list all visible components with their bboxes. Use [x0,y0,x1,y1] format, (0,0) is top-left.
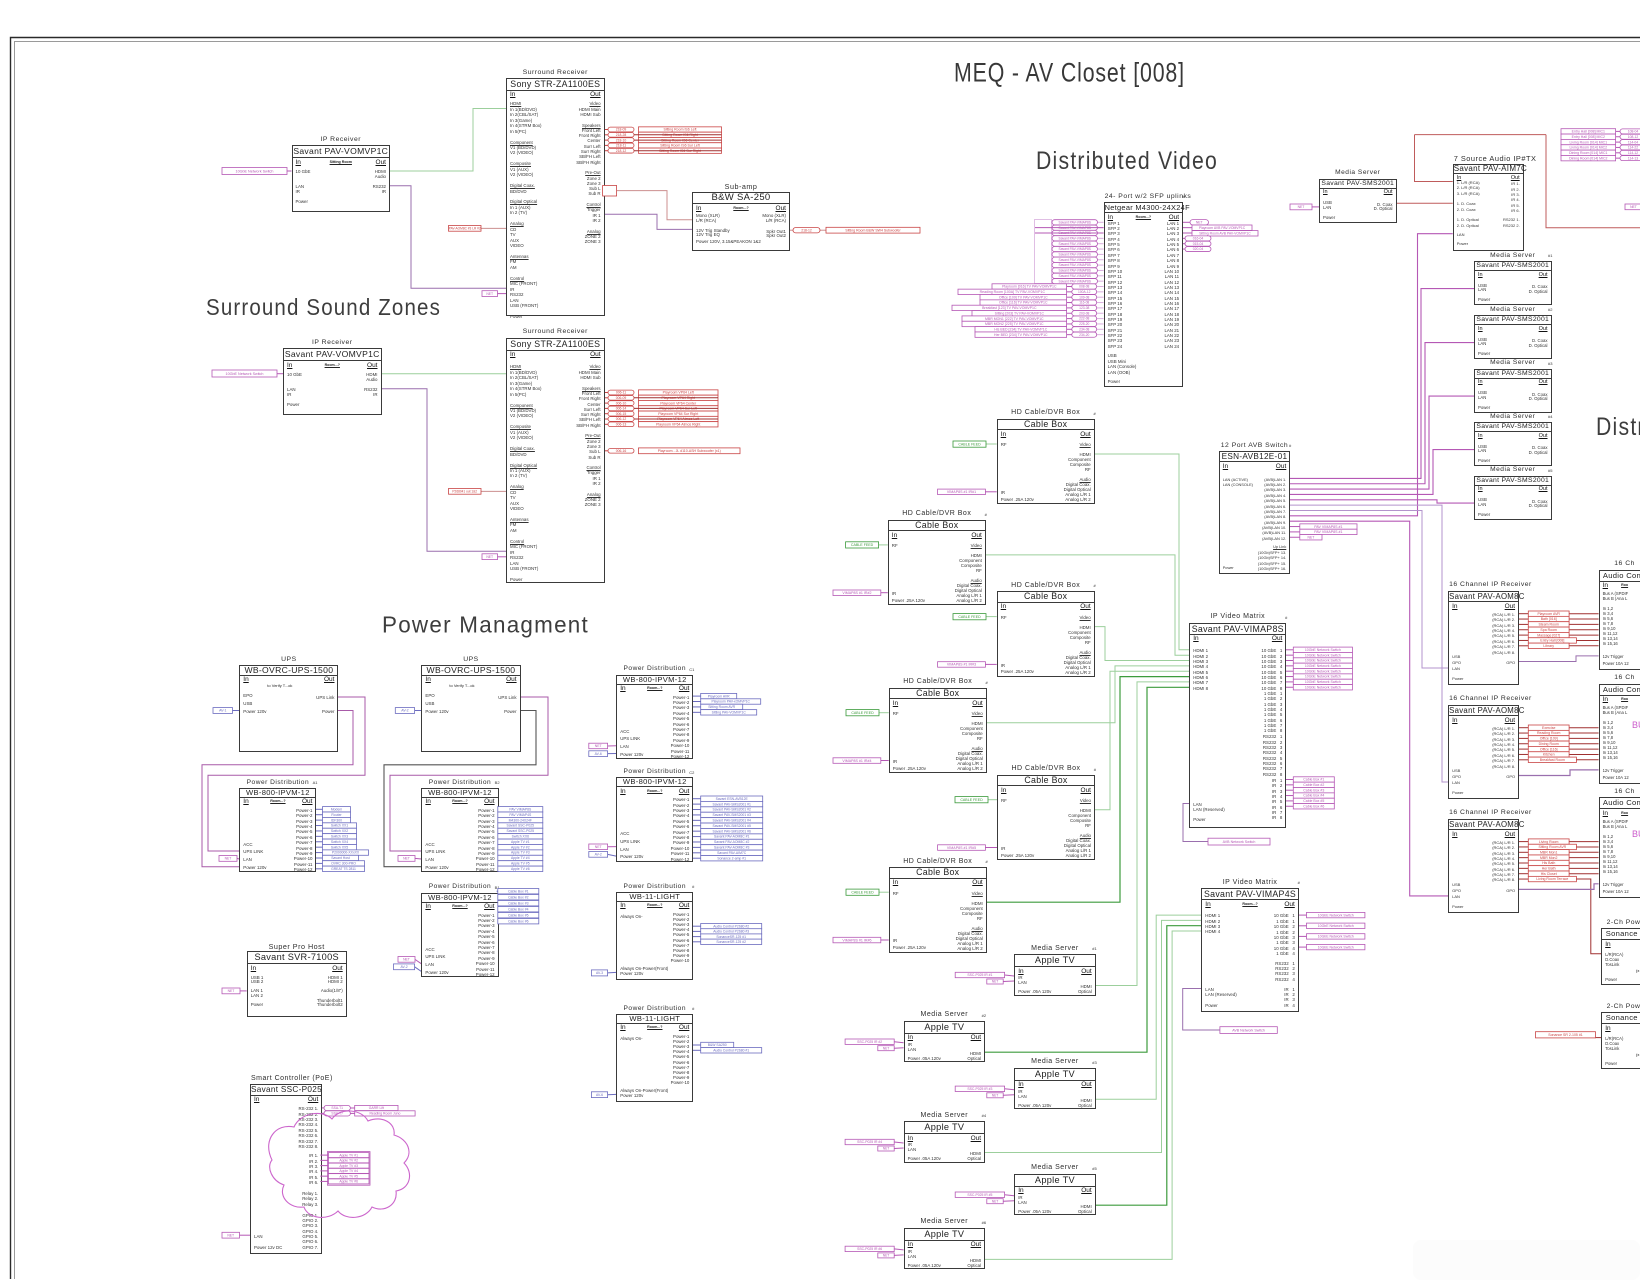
svg-text:Playroom AVR: Playroom AVR [1537,612,1560,616]
svg-text:114-04: 114-04 [1628,140,1638,144]
svg-text:Savant PAV-VIMAP8S: Savant PAV-VIMAP8S [1059,220,1092,224]
svg-text:AV-2: AV-2 [401,709,408,713]
svg-text:Audio Control P2680 #3: Audio Control P2680 #3 [713,930,749,934]
svg-text:NET: NET [486,555,493,559]
svg-text:Savant PAV-SMS2001 #2: Savant PAV-SMS2001 #2 [713,808,751,812]
svg-text:114-22: 114-22 [1628,146,1638,150]
svg-text:AV-2: AV-2 [595,853,602,857]
svg-text:P2000000-XXxXX: P2000000-XXxXX [332,851,360,855]
svg-text:AV-3: AV-3 [596,971,603,975]
svg-text:Exercise: Exercise [1542,726,1555,730]
svg-text:218-11: 218-11 [616,144,626,148]
svg-text:VIMAP8S #1 IR#4: VIMAP8S #1 IR#4 [842,759,871,763]
svg-text:Apple TV #4: Apple TV #4 [339,1169,358,1173]
svg-text:Dining Room [014] MIC1: Dining Room [014] MIC1 [1569,151,1607,155]
svg-text:Dining Room: Dining Room [1539,742,1559,746]
svg-text:Savant PAV-VIMAP8S: Savant PAV-VIMAP8S [1059,258,1092,262]
svg-text:Office [116]: Office [116] [1540,747,1558,751]
svg-text:Dining Room [014] MIC2: Dining Room [014] MIC2 [1569,156,1607,160]
svg-text:10GbE Network Switch: 10GbE Network Switch [1305,675,1341,679]
svg-text:114-12: 114-12 [1628,151,1638,155]
svg-text:Savant PAV-VIMAP8S: Savant PAV-VIMAP8S [1059,279,1092,283]
svg-text:SSC-P025 IR #2: SSC-P025 IR #2 [857,1040,882,1044]
svg-text:NET: NET [1196,220,1203,224]
svg-text:Savant PAV-SMS2001 #3: Savant PAV-SMS2001 #3 [713,813,751,817]
svg-text:Reading Room [100A] TV PAV-VOM: Reading Room [100A] TV PAV-VOMVP1C [980,290,1046,294]
svg-text:Savant PAV-AIM7C: Savant PAV-AIM7C [717,851,747,855]
svg-text:His Bath: His Bath [1542,861,1555,865]
svg-text:CABLE FEED: CABLE FEED [958,615,981,619]
svg-text:Apple TV #5: Apple TV #5 [511,862,530,866]
svg-text:OVRC 300-PRO: OVRC 300-PRO [331,862,356,866]
svg-text:Apple TV #6: Apple TV #6 [339,1180,358,1184]
svg-text:AV-1: AV-1 [219,709,226,713]
svg-text:B&W SA250: B&W SA250 [708,1043,727,1047]
svg-text:IDF300: IDF300 [331,818,342,822]
svg-text:PAV VIMAP8S #1: PAV VIMAP8S #1 [1314,525,1342,529]
svg-text:020-04: 020-04 [1193,247,1204,251]
svg-text:218-10: 218-10 [616,138,627,142]
svg-text:Entry Hall [008] MIC1: Entry Hall [008] MIC1 [1572,130,1605,134]
svg-text:Apple TV #5: Apple TV #5 [339,1174,358,1178]
svg-text:Modem: Modem [331,807,342,811]
svg-text:Cable Box #4: Cable Box #4 [508,907,528,911]
svg-text:Playroom PAV-xOMVP1C: Playroom PAV-xOMVP1C [711,700,750,704]
svg-text:CABLE FEED: CABLE FEED [851,890,874,894]
svg-text:Cable Box #3: Cable Box #3 [508,901,528,905]
svg-text:116-08: 116-08 [1079,301,1089,305]
svg-text:SSC-P025 IR #4: SSC-P025 IR #4 [857,1140,882,1144]
svg-text:Cable Box #1: Cable Box #1 [1303,778,1324,782]
svg-text:GARR Lift: GARR Lift [369,1106,384,1110]
svg-text:NET: NET [403,958,410,962]
svg-text:Reading Room: Reading Room [1537,731,1560,735]
svg-text:Apple TV #3: Apple TV #3 [339,1164,358,1168]
svg-text:225-20: 225-20 [1079,322,1089,326]
svg-text:Playroom VP64 Center: Playroom VP64 Center [660,401,697,405]
svg-text:NET: NET [1630,205,1637,209]
svg-text:10GbE Network Switch: 10GbE Network Switch [1318,924,1354,928]
svg-text:218-28: 218-28 [616,133,627,137]
svg-text:VIMAP8S #1 IR#1: VIMAP8S #1 IR#1 [947,490,976,494]
svg-text:Savant PAV-VIMAP8S: Savant PAV-VIMAP8S [1059,242,1092,246]
svg-text:006-12: 006-12 [616,417,627,421]
svg-text:Playroom AVR: Playroom AVR [708,694,730,698]
svg-text:SonanceSR-125 #2: SonanceSR-125 #2 [716,940,746,944]
svg-text:Living Room [014] MIC2: Living Room [014] MIC2 [1570,146,1608,150]
svg-text:006-15: 006-15 [616,412,627,416]
svg-text:SSC-P025 IR #1: SSC-P025 IR #1 [967,973,992,977]
svg-text:Sitting Room AVR: Sitting Room AVR [1538,845,1566,849]
svg-text:006-10: 006-10 [616,401,627,405]
svg-text:Savant PAV-VIMAP8S: Savant PAV-VIMAP8S [1059,253,1092,257]
svg-text:NET: NET [883,1046,890,1050]
svg-text:VIMAP8S #1 IR#6: VIMAP8S #1 IR#6 [842,938,871,942]
svg-text:Switch XX5: Switch XX5 [331,845,348,849]
svg-text:Playroom - JL d110-ASH Subwoof: Playroom - JL d110-ASH Subwoofer (x1) [658,449,721,453]
svg-text:Entry Hall [008]: Entry Hall [008] [1540,639,1564,643]
svg-text:Savant PAV-AOM8C #2: Savant PAV-AOM8C #2 [714,840,750,844]
svg-text:10GbE Network Switch: 10GbE Network Switch [1305,659,1341,663]
svg-text:108-04: 108-04 [1628,130,1639,134]
svg-text:10GbE Network Switch: 10GbE Network Switch [1305,685,1341,689]
svg-text:NET: NET [883,1147,890,1151]
svg-text:218-09: 218-09 [616,128,627,132]
svg-text:Sitting Room AVB PAV-VOMVP1C: Sitting Room AVB PAV-VOMVP1C [1199,231,1251,235]
svg-text:Apple TV #1: Apple TV #1 [339,1153,358,1157]
svg-text:222-08: 222-08 [1079,317,1089,321]
svg-text:Apple TV #6: Apple TV #6 [511,867,530,871]
svg-text:Her BED [234] TV PAV-VOMVP1C: Her BED [234] TV PAV-VOMVP1C [994,333,1048,337]
svg-text:Savant ESN-AVB12E: Savant ESN-AVB12E [716,797,749,801]
svg-text:006-11: 006-11 [616,391,626,395]
svg-text:NET: NET [595,744,602,748]
svg-text:BUS: BUS [1632,720,1640,730]
svg-text:AV-2: AV-2 [400,965,407,969]
svg-text:NET: NET [486,292,493,296]
svg-text:Sitting PAV-VOMVP1C: Sitting PAV-VOMVP1C [712,710,747,714]
svg-text:His BED [234] TV PAV-VOMVP1C: His BED [234] TV PAV-VOMVP1C [994,327,1047,331]
svg-text:114-13: 114-13 [1628,156,1638,160]
svg-text:Savant PAV-SMS2001 #6: Savant PAV-SMS2001 #6 [713,829,751,833]
svg-text:Savant PAV-AOM8C #3: Savant PAV-AOM8C #3 [714,846,750,850]
svg-text:10GbE Network Switch: 10GbE Network Switch [1305,664,1341,668]
svg-text:Savant PAV-SMS2001 #5: Savant PAV-SMS2001 #5 [713,824,751,828]
svg-text:Office [109]: Office [109] [1540,737,1558,741]
svg-text:Cable Box #6: Cable Box #6 [1303,804,1324,808]
svg-text:Apple TV #1: Apple TV #1 [511,840,530,844]
svg-text:Router: Router [331,813,342,817]
svg-text:Savant PAV-VIMAP8S: Savant PAV-VIMAP8S [1059,274,1092,278]
svg-text:SSA-T1: SSA-T1 [331,1106,343,1110]
svg-text:Sitting [203] TV PAV-VOMVP1C: Sitting [203] TV PAV-VOMVP1C [995,311,1045,315]
svg-text:His Closet: His Closet [1541,872,1557,876]
svg-text:Savant PAV-SMS2001 #1: Savant PAV-SMS2001 #1 [713,802,751,806]
svg-text:123-08: 123-08 [1079,306,1089,310]
svg-text:Audio Control P2680 #1: Audio Control P2680 #1 [713,1048,749,1052]
svg-text:10GbE Network Switch: 10GbE Network Switch [1318,935,1354,939]
svg-text:Savant SSC-P025: Savant SSC-P025 [507,829,535,833]
svg-text:016-04: 016-04 [1193,237,1204,241]
svg-text:Savant PAV-VIMAP8S: Savant PAV-VIMAP8S [1059,236,1092,240]
svg-text:Savant Host: Savant Host [331,856,350,860]
svg-text:10GbE Network Switch: 10GbE Network Switch [1318,945,1354,949]
svg-text:234-08: 234-08 [1079,327,1089,331]
svg-text:Living Room Terrace: Living Room Terrace [1536,877,1568,881]
svg-text:MBR MON1 [222] TV PAV-VOMVP1C: MBR MON1 [222] TV PAV-VOMVP1C [985,317,1044,321]
svg-text:M4300-24X24F: M4300-24X24F [509,818,532,822]
svg-text:Apple TV #3: Apple TV #3 [511,851,530,855]
svg-text:Cable Box #5: Cable Box #5 [1303,799,1324,803]
svg-text:Playroom AVB PAV-VOMVP1C: Playroom AVB PAV-VOMVP1C [1199,226,1246,230]
svg-text:NET: NET [1308,535,1315,539]
svg-text:Switch XX3: Switch XX3 [331,835,348,839]
svg-text:NET: NET [225,857,232,861]
svg-text:006-16: 006-16 [616,449,627,453]
svg-text:Sonance SR 2-105 #1: Sonance SR 2-105 #1 [1548,1033,1582,1037]
svg-text:Massage [027]: Massage [027] [1537,633,1560,637]
svg-text:AV-6: AV-6 [596,1093,603,1097]
svg-text:PAV VIMAP8S #1: PAV VIMAP8S #1 [1314,530,1342,534]
svg-text:NET: NET [1298,205,1305,209]
svg-text:006-13: 006-13 [616,422,627,426]
svg-text:SSC-P025 IR #6: SSC-P025 IR #6 [857,1247,882,1251]
svg-text:BUS: BUS [1632,829,1640,839]
svg-text:NET: NET [227,1233,234,1237]
svg-text:Office [109] TV PAV-VOMVP1C: Office [109] TV PAV-VOMVP1C [999,295,1048,299]
svg-text:10GbE Network Switch: 10GbE Network Switch [226,372,264,376]
svg-text:Savant PAV-VIMAP8S: Savant PAV-VIMAP8S [1059,269,1092,273]
svg-text:Playroom VP64 Sur Right: Playroom VP64 Sur Right [658,412,698,416]
svg-text:P268041 out 1&2: P268041 out 1&2 [452,489,477,493]
svg-text:AV-6: AV-6 [595,752,602,756]
svg-text:Playroom VP64 Left: Playroom VP64 Left [663,391,694,395]
svg-text:10GbE Network Switch: 10GbE Network Switch [1305,680,1341,684]
svg-text:Office [116] TV PAV-VOMVP1C: Office [116] TV PAV-VOMVP1C [999,301,1048,305]
svg-text:PAV VIMAP8S: PAV VIMAP8S [509,807,532,811]
svg-text:PAV VIMAP4S: PAV VIMAP4S [509,813,532,817]
svg-text:PAV-AOM8C #3 LR #2: PAV-AOM8C #3 LR #2 [449,226,481,230]
svg-text:008-08: 008-08 [1079,285,1089,289]
svg-text:Library: Library [1543,644,1554,648]
svg-text:SSC-P025 IR #3: SSC-P025 IR #3 [967,1087,992,1091]
svg-text:Cable Box #6: Cable Box #6 [508,919,528,923]
svg-text:234-20: 234-20 [1079,333,1089,337]
svg-text:Her Bath: Her Bath [1542,867,1556,871]
svg-text:VIMAP8S #1 IR#2: VIMAP8S #1 IR#2 [842,591,871,595]
svg-text:Savant SSC-P025: Savant SSC-P025 [507,824,535,828]
svg-text:NET: NET [228,989,235,993]
svg-text:Savant PAV-VIMAP8S: Savant PAV-VIMAP8S [1059,247,1092,251]
svg-text:NET: NET [883,1254,890,1258]
svg-text:10GbE Network Switch: 10GbE Network Switch [1305,669,1341,673]
svg-text:NET: NET [403,857,410,861]
svg-text:Switch XX2: Switch XX2 [331,829,348,833]
svg-text:Cable Box #4: Cable Box #4 [1303,794,1324,798]
svg-text:Cable Box #1: Cable Box #1 [508,889,528,893]
svg-text:NET: NET [595,845,602,849]
svg-text:10GbE Network Switch: 10GbE Network Switch [1318,913,1354,917]
svg-text:Breakfast Room: Breakfast Room [1540,758,1565,762]
svg-text:Sitting Room AVR: Sitting Room AVR [708,705,735,709]
svg-text:Entry Hall [008] MIC2: Entry Hall [008] MIC2 [1572,135,1605,139]
svg-text:CABLE FEED: CABLE FEED [960,798,983,802]
svg-text:Bath [016]: Bath [016] [1541,617,1557,621]
svg-text:VIMAP8S #1 IR#3: VIMAP8S #1 IR#3 [947,663,976,667]
svg-text:006-14: 006-14 [616,407,627,411]
svg-text:Switch XX4: Switch XX4 [331,840,348,844]
svg-text:Playroom VP64 Atmos Right: Playroom VP64 Atmos Right [656,422,700,426]
svg-text:GREAT TS 2811: GREAT TS 2811 [331,867,356,871]
svg-text:SSC-P025 IR #5: SSC-P025 IR #5 [967,1193,992,1197]
svg-text:Sonance 2-amp #1: Sonance 2-amp #1 [717,856,746,860]
svg-text:Sitting Room B&W SW4 Subwoofe: Sitting Room B&W SW4 Subwoofer [845,228,901,232]
svg-text:Savant PAV-SMS2001 #4: Savant PAV-SMS2001 #4 [713,818,751,822]
svg-text:Spa Room: Spa Room [1540,628,1557,632]
svg-text:Steam Room: Steam Room [1538,623,1559,627]
svg-text:SonanceSR-125 #1: SonanceSR-125 #1 [716,935,746,939]
svg-text:Apple TV #2: Apple TV #2 [339,1159,358,1163]
svg-text:10GbE Network Switch: 10GbE Network Switch [1305,653,1341,657]
svg-text:Reading Room Juno: Reading Room Juno [369,1112,400,1116]
svg-text:Cable Box #5: Cable Box #5 [508,913,528,917]
svg-text:203-08: 203-08 [1079,311,1089,315]
svg-text:Audio Control P2680 #2: Audio Control P2680 #2 [713,924,749,928]
svg-text:MBR MON2 [225] TV PAV-VOMVP1C: MBR MON2 [225] TV PAV-VOMVP1C [985,322,1044,326]
svg-text:Switch XX1: Switch XX1 [331,824,348,828]
svg-text:Switch XX6: Switch XX6 [512,835,529,839]
svg-text:Sitting Room IS6 Sur Left: Sitting Room IS6 Sur Left [660,144,700,148]
svg-text:Cable Box #2: Cable Box #2 [508,895,528,899]
svg-text:CABLE FEED: CABLE FEED [958,442,981,446]
svg-text:100A-12: 100A-12 [1078,290,1091,294]
svg-text:AVB Network Switch: AVB Network Switch [1223,840,1256,844]
svg-text:Sitting Room IS6 Left: Sitting Room IS6 Left [663,128,696,132]
svg-text:AVB Network Switch: AVB Network Switch [1232,1028,1265,1032]
svg-text:VIMAP8S #1 IR#5: VIMAP8S #1 IR#5 [947,846,976,850]
svg-text:CABLE FEED: CABLE FEED [851,543,874,547]
svg-text:Apple TV #4: Apple TV #4 [511,856,530,860]
svg-text:Kitchen: Kitchen [1543,753,1555,757]
svg-text:109-08: 109-08 [1079,295,1089,299]
svg-text:NET: NET [992,1093,999,1097]
svg-text:MBR Mon2: MBR Mon2 [1540,856,1558,860]
svg-text:CABLE FEED: CABLE FEED [851,711,874,715]
svg-text:006-09: 006-09 [616,396,627,400]
svg-text:Living Room: Living Room [1539,840,1559,844]
svg-text:Living Room [014] MIC1: Living Room [014] MIC1 [1570,140,1608,144]
svg-text:Apple TV #2: Apple TV #2 [511,845,530,849]
svg-text:Savant PAV-AOM8C #1: Savant PAV-AOM8C #1 [714,835,750,839]
svg-text:Playroom [016] TV PAV-VOMVP1C: Playroom [016] TV PAV-VOMVP1C [1002,285,1057,289]
svg-text:015-04: 015-04 [1193,242,1204,246]
svg-text:218-12: 218-12 [616,149,627,153]
svg-text:Breakfast [123] TV PAV-VOMVP1C: Breakfast [123] TV PAV-VOMVP1C [982,306,1037,310]
svg-text:Cable Box #3: Cable Box #3 [1303,788,1324,792]
svg-text:NET: NET [992,1199,999,1203]
svg-text:NET: NET [992,980,999,984]
svg-text:MBR Mon1: MBR Mon1 [1540,850,1558,854]
svg-text:108-12: 108-12 [1628,135,1639,139]
svg-text:218-12: 218-12 [801,228,812,232]
svg-text:Cable Box #2: Cable Box #2 [1303,783,1324,787]
svg-text:10GbE Network Switch: 10GbE Network Switch [236,169,274,173]
svg-text:Savant PAV-VIMAP8S: Savant PAV-VIMAP8S [1059,263,1092,267]
svg-text:10GbE Network Switch: 10GbE Network Switch [1305,648,1341,652]
